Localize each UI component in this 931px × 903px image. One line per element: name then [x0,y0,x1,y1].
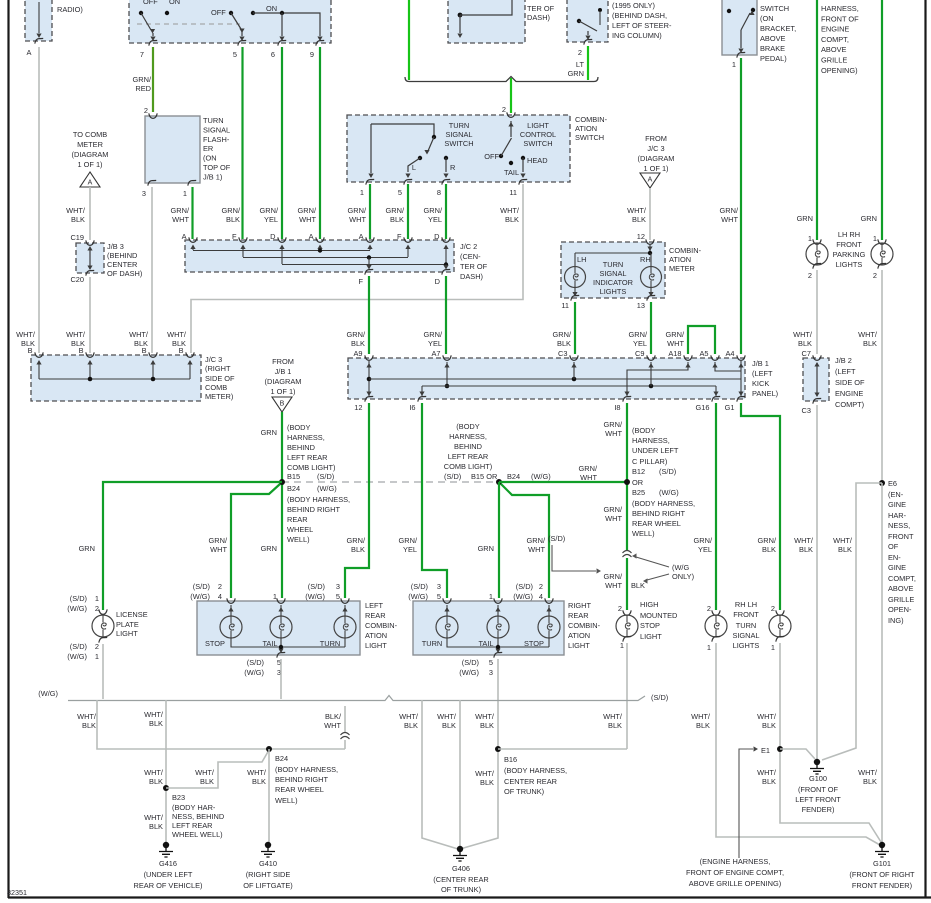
wire green feed from top to junction bracket [408,0,410,80]
svg-text:TAIL: TAIL [504,168,519,177]
svg-text:CENTER: CENTER [107,260,137,269]
svg-text:ATION: ATION [365,631,387,640]
svg-text:HEAD: HEAD [527,156,548,165]
svg-text:DASH): DASH) [460,272,483,281]
splice E6 on RH parking ground wire [879,480,885,486]
svg-text:COMBIN-: COMBIN- [365,621,398,630]
svg-text:A: A [88,180,93,187]
wire WHT/BLK comb meter triangle to J/B3 C19 [89,187,91,240]
svg-text:(RIGHT SIDE: (RIGHT SIDE [246,870,291,879]
svg-text:BLK: BLK [172,339,186,348]
svg-text:BLK: BLK [404,721,418,730]
svg-text:LT: LT [576,60,585,69]
svg-text:5: 5 [336,592,340,601]
junction connector J/C 3 (right side of comb meter) [31,355,201,401]
svg-text:(FRONT OF: (FRONT OF [798,785,839,794]
svg-text:PEDAL): PEDAL) [760,54,787,63]
svg-text:WELL): WELL) [287,535,310,544]
RH front parking light lamp [878,239,886,244]
svg-text:I6: I6 [409,403,415,412]
svg-text:A18: A18 [668,349,681,358]
wire WHT/BLK bracket through splice B23 to ground G416 [165,700,167,843]
svg-text:ING COLUMN): ING COLUMN) [612,31,662,40]
J/C2 internal bus F [243,257,408,259]
svg-text:BLK: BLK [696,721,710,730]
svg-text:13: 13 [637,301,645,310]
svg-text:YEL: YEL [633,339,647,348]
svg-text:BLK: BLK [505,215,519,224]
svg-text:(S/D): (S/D) [411,582,428,591]
J/C2 internal bus D [282,264,446,266]
svg-text:(DIAGRAM: (DIAGRAM [265,377,302,386]
svg-text:BLK: BLK [390,215,404,224]
svg-text:G1: G1 [725,403,735,412]
svg-text:FRONT OF: FRONT OF [821,14,859,23]
splice B12/B25 [624,479,630,485]
svg-text:(S/D): (S/D) [659,467,676,476]
pin 2 of 1995-only connector [584,39,592,44]
svg-text:L: L [412,163,416,172]
svg-text:DASH): DASH) [527,13,550,22]
svg-text:BLK: BLK [762,545,776,554]
svg-text:1: 1 [489,592,493,601]
wire WHT/BLK license plate light to option bracket [102,644,104,699]
svg-text:WHT/: WHT/ [475,769,495,778]
svg-text:GRN/: GRN/ [347,330,366,339]
svg-text:(S/D): (S/D) [308,582,325,591]
svg-text:(BODY HARNESS,: (BODY HARNESS, [275,765,338,774]
svg-text:YEL: YEL [428,215,442,224]
svg-text:ATION: ATION [669,255,691,264]
wire GRN/WHT splice to right stop lamp [501,484,549,598]
svg-text:WHT/: WHT/ [77,712,97,721]
svg-text:4: 4 [218,592,222,601]
LH front parking light lamp [813,239,821,244]
svg-text:(RIGHT: (RIGHT [205,364,231,373]
svg-text:WHT/: WHT/ [475,712,495,721]
ground G410 [265,842,271,848]
wire GRN/WHT comb switch pin1 to J/C2 A [369,184,371,239]
svg-text:C3: C3 [802,406,811,415]
wire WHT/BLK right rear combo to splice B16 [460,659,498,849]
svg-text:HARNESS,: HARNESS, [449,432,487,441]
J/C3 pins B B B B [35,352,43,357]
svg-text:TURN: TURN [736,621,757,630]
svg-text:WHT/: WHT/ [144,710,164,719]
svg-text:ABOVE: ABOVE [760,34,786,43]
svg-text:OF TRUNK): OF TRUNK) [504,787,544,796]
svg-text:REAR OF VEHICLE): REAR OF VEHICLE) [134,881,203,890]
svg-text:1 OF 1): 1 OF 1) [643,164,668,173]
flasher pins 3 and 1 bottom [148,180,156,185]
svg-text:TER OF: TER OF [527,4,555,13]
svg-text:COMPT,: COMPT, [888,574,916,583]
svg-text:WHT/: WHT/ [247,768,267,777]
svg-text:ON: ON [266,4,277,13]
tail lamp left rear [270,616,292,638]
svg-text:LICENSE: LICENSE [116,610,148,619]
svg-text:(BODY HARNESS,: (BODY HARNESS, [504,766,567,775]
svg-text:6: 6 [271,50,275,59]
svg-text:INDICATOR: INDICATOR [593,278,633,287]
svg-text:B15: B15 [287,472,300,481]
svg-text:SWITCH: SWITCH [760,4,789,13]
svg-text:WHT: WHT [528,545,545,554]
svg-text:C3: C3 [558,349,567,358]
svg-text:GRN/: GRN/ [604,420,623,429]
svg-text:1: 1 [707,643,711,652]
comb meter pin 12 top [646,239,654,244]
left rear combo internal wiring [230,605,232,616]
wire GRN/BLK J/B1 G1 to RH front turn signal light [741,403,780,610]
svg-text:OF TRUNK): OF TRUNK) [441,885,481,894]
svg-text:TURN: TURN [203,116,224,125]
svg-text:SIDE OF: SIDE OF [205,374,235,383]
svg-text:STOP: STOP [205,639,225,648]
svg-text:F: F [232,232,237,241]
wire GRN from top to LH front parking light [816,0,818,240]
wire hazard pin6 to J/C2 D [281,47,283,239]
svg-text:(CEN-: (CEN- [460,252,481,261]
svg-text:BLK: BLK [863,339,877,348]
hazard switch box [129,0,331,43]
svg-text:2: 2 [618,604,622,613]
svg-text:C PILLAR): C PILLAR) [632,457,667,466]
svg-text:B16: B16 [504,755,517,764]
svg-text:(S/D): (S/D) [548,534,565,543]
svg-text:(FRONT OF RIGHT: (FRONT OF RIGHT [849,870,915,879]
svg-text:BEHIND: BEHIND [287,443,315,452]
svg-text:YEL: YEL [403,545,417,554]
svg-text:A: A [27,48,32,57]
svg-text:OFF: OFF [211,8,226,17]
combination meter box with turn signal indicator lights [561,242,665,298]
svg-text:D: D [435,277,440,286]
svg-text:A7: A7 [431,349,440,358]
svg-text:(BEHIND: (BEHIND [107,251,137,260]
svg-text:TER OF: TER OF [460,262,488,271]
svg-text:WHT: WHT [210,545,227,554]
svg-text:WHT: WHT [605,514,622,523]
svg-text:BLK: BLK [799,545,813,554]
svg-text:(S/D): (S/D) [651,693,668,702]
wire GRN splice B15 to license plate light [103,482,282,610]
svg-text:RH: RH [640,255,651,264]
svg-text:COMB: COMB [205,383,227,392]
svg-text:GRN: GRN [568,69,584,78]
right rear combo pins top [443,598,451,603]
svg-text:WHT: WHT [667,339,684,348]
wire WHT/BLK splice B16 to high mounted stop wire [498,748,627,750]
svg-text:COMPT,: COMPT, [821,35,849,44]
svg-text:12: 12 [637,232,645,241]
svg-text:2: 2 [95,604,99,613]
svg-text:FENDER): FENDER) [802,805,835,814]
svg-text:FRONT: FRONT [836,240,862,249]
svg-text:WHT/: WHT/ [66,330,86,339]
svg-text:LIGHT: LIGHT [527,121,549,130]
left rear combination light box [197,601,360,655]
svg-text:5: 5 [489,658,493,667]
svg-text:ABOVE: ABOVE [821,45,847,54]
svg-text:BLK: BLK [149,719,163,728]
svg-text:BEHIND RIGHT: BEHIND RIGHT [275,775,328,784]
svg-text:BLK/: BLK/ [325,712,342,721]
svg-text:COMBIN-: COMBIN- [568,621,601,630]
combination switch box [347,115,570,182]
svg-text:LIGHT: LIGHT [365,641,387,650]
svg-text:1: 1 [808,234,812,243]
svg-text:OPEN-: OPEN- [888,605,912,614]
svg-text:COMB LIGHT): COMB LIGHT) [287,463,335,472]
wire GRN/YEL J/C2 D to J/B1 A7 [445,276,447,354]
svg-text:BRAKE: BRAKE [760,44,785,53]
turn lamp right rear [436,616,458,638]
svg-text:BLK: BLK [838,545,852,554]
svg-text:2: 2 [95,642,99,651]
svg-text:GRN/: GRN/ [553,330,572,339]
wire to combination switch pin 2 [510,78,512,113]
svg-text:SWITCH: SWITCH [523,139,552,148]
svg-text:SWITCH: SWITCH [444,139,473,148]
svg-text:(W/G: (W/G [672,563,689,572]
svg-text:B24: B24 [287,484,300,493]
wire WHT/BLK J/B2 C3 down to ground G100 [816,405,818,759]
J/B1 internal wiring [368,361,370,396]
svg-text:COMPT): COMPT) [835,400,864,409]
ground G406 [457,846,463,852]
wire GRN from top to RH front parking light [881,0,883,240]
wire WHT/BLK bracket to ground G406 center [459,700,461,846]
svg-text:1: 1 [873,234,877,243]
svg-text:(BODY: (BODY [287,423,310,432]
svg-text:(W/G): (W/G) [305,592,325,601]
svg-text:WHT/: WHT/ [757,712,777,721]
svg-text:WHT: WHT [299,215,316,224]
svg-text:REAR WHEEL: REAR WHEEL [632,519,681,528]
wire WHT/BLK branch B23 up to splice B24 [166,750,269,788]
svg-text:OR: OR [632,478,643,487]
svg-text:4: 4 [539,592,543,601]
svg-text:PLATE: PLATE [116,620,139,629]
right rear combination light box [413,601,564,655]
svg-text:GINE: GINE [888,500,906,509]
stop lamp right rear [538,616,560,638]
splice B24 [266,746,272,752]
svg-text:BLK: BLK [480,721,494,730]
svg-text:G101: G101 [873,859,891,868]
svg-text:G406: G406 [452,864,470,873]
turn signal flasher box (on top of J/B 1) [145,116,200,183]
svg-text:(S/D): (S/D) [317,472,334,481]
svg-text:A: A [309,232,314,241]
wire GRN/YEL comb meter pin13 to J/B1 C9 [650,302,652,354]
svg-text:(LEFT: (LEFT [752,369,773,378]
svg-text:GRN: GRN [79,544,95,553]
svg-text:METER: METER [669,264,695,273]
svg-text:2: 2 [218,582,222,591]
svg-text:WHT/: WHT/ [437,712,457,721]
svg-text:GRN/: GRN/ [758,536,777,545]
svg-text:D: D [434,232,439,241]
svg-text:SIGNAL: SIGNAL [599,269,626,278]
svg-text:2: 2 [502,105,506,114]
svg-text:RIGHT: RIGHT [568,601,591,610]
turn lamp left rear [334,616,356,638]
svg-text:(DIAGRAM: (DIAGRAM [638,154,675,163]
svg-text:J/B 1: J/B 1 [752,359,769,368]
ground G100 [814,759,820,765]
svg-text:LEFT REAR: LEFT REAR [448,452,489,461]
svg-text:(CENTER REAR: (CENTER REAR [433,875,488,884]
svg-text:I8: I8 [614,403,620,412]
svg-text:SWITCH: SWITCH [575,133,604,142]
svg-text:3: 3 [336,582,340,591]
svg-text:KICK: KICK [752,379,769,388]
svg-text:SIGNAL: SIGNAL [732,631,759,640]
svg-text:NESS,: NESS, [888,521,910,530]
svg-text:1 OF 1): 1 OF 1) [77,160,102,169]
svg-text:BLK: BLK [798,339,812,348]
svg-text:LIGHT: LIGHT [568,641,590,650]
right rear combo internal wiring [446,605,448,616]
svg-text:A: A [648,177,653,184]
svg-text:C20: C20 [70,275,84,284]
splice B15 (left) [279,479,285,485]
wire WHT/BLK bracket to ground G406 left [422,700,458,849]
svg-text:WHT/: WHT/ [66,206,86,215]
svg-text:11: 11 [509,188,517,197]
J/B3 pin C19 top, C20 bottom [86,240,94,245]
J/B2 pin C7 top, C3 bottom [813,355,821,360]
svg-text:GRN: GRN [861,214,877,223]
svg-text:WHT/: WHT/ [144,813,164,822]
svg-text:GRN/: GRN/ [720,206,739,215]
wire dashed E1 to ground G100 [780,749,815,759]
svg-text:(S/D): (S/D) [247,658,264,667]
wire WHT/BLK J/B3 C20 to J/C3 [89,277,91,353]
svg-text:(S/D): (S/D) [70,642,87,651]
svg-text:BLK: BLK [252,777,266,786]
svg-text:3: 3 [489,668,493,677]
svg-text:(W/G): (W/G) [190,592,210,601]
svg-text:BLK: BLK [71,215,85,224]
svg-text:WHT/: WHT/ [167,330,187,339]
svg-text:GINE: GINE [888,563,906,572]
option bracket line W/G S/D [68,696,645,701]
svg-text:(UNDER LEFT: (UNDER LEFT [144,870,193,879]
svg-text:B24: B24 [507,472,520,481]
svg-text:BLK: BLK [149,777,163,786]
svg-text:WHT/: WHT/ [794,536,814,545]
wire GRN triangle B to splice B15 and tail lamps [281,412,283,598]
svg-text:1: 1 [183,189,187,198]
svg-text:LEFT REAR: LEFT REAR [287,453,328,462]
svg-text:GRN/: GRN/ [604,572,623,581]
wire WHT/BLK triangle to comb meter pin 12 [649,188,651,240]
svg-text:GRN/: GRN/ [347,536,366,545]
svg-text:FRONT FENDER): FRONT FENDER) [852,881,912,890]
turn signal indicator lamp LH [565,267,586,288]
svg-text:J/B 3: J/B 3 [107,242,124,251]
svg-text:F: F [358,277,363,286]
wire GRN/YEL J/B1 G16 to LH front turn signal light [715,403,717,610]
svg-text:1: 1 [95,594,99,603]
splice E1 on RH front turn ground wire [777,746,783,752]
svg-text:WELL): WELL) [275,796,298,805]
wire GRN/BLK comb switch pin5 to J/C2 F [407,184,409,239]
svg-text:LIGHTS: LIGHTS [733,641,760,650]
svg-text:J/B 1): J/B 1) [203,172,222,181]
svg-text:LIGHT: LIGHT [116,629,138,638]
svg-text:BLK: BLK [82,721,96,730]
svg-text:GRILLE: GRILLE [888,595,914,604]
wire hazard pin9 to J/C2 A [319,47,321,239]
svg-text:BLK: BLK [351,339,365,348]
svg-text:ER: ER [203,144,213,153]
junction connector box (center of dash), cut off at top [448,0,525,43]
svg-text:HAR-: HAR- [888,511,907,520]
wire GRN/WHT flasher pin1 to J/C2 A [191,187,193,239]
svg-text:(1995 ONLY): (1995 ONLY) [612,1,655,10]
svg-text:B24: B24 [275,754,288,763]
wire break symbol on GRN/WHT near high mounted stop light [624,550,630,558]
hazard switch pins 7 5 6 9 [149,40,157,45]
turn signal indicator lamp RH [641,267,662,288]
left rear combo bottom pin [277,652,285,657]
svg-text:FRONT: FRONT [888,532,914,541]
svg-text:GRN/: GRN/ [133,75,152,84]
svg-text:GRN/: GRN/ [629,330,648,339]
svg-text:1: 1 [273,592,277,601]
svg-text:GRN/: GRN/ [298,206,317,215]
svg-text:TURN: TURN [603,260,624,269]
combination switch pin 2 top [507,112,515,117]
svg-text:WHT/: WHT/ [691,712,711,721]
svg-text:(W/G): (W/G) [317,484,337,493]
svg-text:WHT/: WHT/ [399,712,419,721]
svg-text:RH LH: RH LH [735,600,757,609]
svg-text:(W/G): (W/G) [513,592,533,601]
svg-text:WHT: WHT [324,721,341,730]
splice B23 [163,785,169,791]
wire WHT/BLK RH front turn through splice E1 to ground G101 [780,643,881,842]
svg-text:FLASH-: FLASH- [203,135,230,144]
svg-text:WHT/: WHT/ [793,330,813,339]
svg-text:J/B 1: J/B 1 [275,367,292,376]
svg-text:A: A [359,232,364,241]
svg-text:(S/D): (S/D) [462,658,479,667]
svg-text:BLK: BLK [480,778,494,787]
svg-text:C19: C19 [70,233,84,242]
wire GRN/WHT J/B1 I8 to high mounted stop light [626,403,628,610]
svg-text:2: 2 [707,604,711,613]
svg-text:3: 3 [142,189,146,198]
svg-text:BLK: BLK [226,215,240,224]
svg-text:TO COMB: TO COMB [73,130,107,139]
wire WHT/BLK RH parking to splice E6 [881,270,883,483]
wire GRN splice to right tail lamp [498,482,500,598]
wire LT GRN from 1995-only connector [587,46,589,80]
wire WHT/BLK splice B24 to ground G410 [268,749,270,843]
svg-text:RADIO): RADIO) [57,5,83,14]
svg-text:A4: A4 [725,349,734,358]
svg-text:(W/G): (W/G) [67,652,87,661]
svg-text:COMBIN-: COMBIN- [669,246,702,255]
svg-text:HIGH: HIGH [640,600,658,609]
svg-text:GRN/: GRN/ [171,206,190,215]
svg-text:OF: OF [888,542,899,551]
